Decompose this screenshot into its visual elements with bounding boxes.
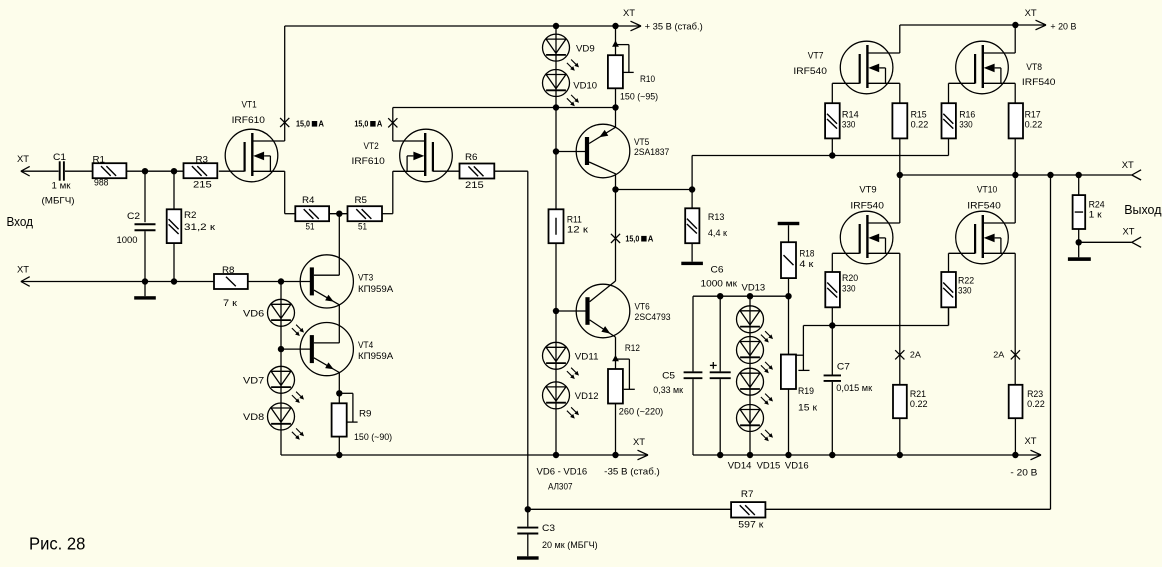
svg-text:VD16: VD16 <box>785 461 809 472</box>
svg-text:51: 51 <box>306 222 315 233</box>
svg-text:VD8: VD8 <box>243 412 264 423</box>
svg-text:XT: XT <box>633 437 645 448</box>
svg-text:C7: C7 <box>837 362 850 373</box>
svg-text:R5: R5 <box>355 195 368 206</box>
svg-text:R18: R18 <box>799 248 814 259</box>
svg-text:VD12: VD12 <box>575 391 599 402</box>
svg-text:Рис. 28: Рис. 28 <box>29 534 85 554</box>
svg-text:330: 330 <box>959 119 973 130</box>
svg-text:R4: R4 <box>302 195 315 206</box>
svg-text:0.22: 0.22 <box>1027 399 1045 410</box>
svg-text:330: 330 <box>842 283 856 294</box>
svg-text:КП959А: КП959А <box>358 284 394 295</box>
svg-text:-35 В (стаб.): -35 В (стаб.) <box>604 466 660 477</box>
svg-text:R19: R19 <box>798 386 814 397</box>
svg-text:IRF610: IRF610 <box>232 115 265 126</box>
svg-text:0,015 мк: 0,015 мк <box>836 383 873 394</box>
svg-text:А: А <box>318 119 324 129</box>
svg-text:330: 330 <box>958 286 972 297</box>
svg-text:VT9: VT9 <box>859 185 876 196</box>
svg-text:2SA1837: 2SA1837 <box>634 147 669 158</box>
svg-text:R12: R12 <box>625 343 640 354</box>
svg-text:XT: XT <box>1025 436 1037 447</box>
svg-text:IRF610: IRF610 <box>352 156 385 167</box>
svg-text:C1: C1 <box>53 152 66 163</box>
svg-text:+ 35 В (стаб.): + 35 В (стаб.) <box>645 22 703 33</box>
svg-text:R2: R2 <box>184 210 197 221</box>
svg-text:R10: R10 <box>640 74 655 85</box>
svg-text:51: 51 <box>358 222 367 233</box>
svg-text:1 мк: 1 мк <box>52 181 72 192</box>
svg-text:АЛ307: АЛ307 <box>548 482 573 493</box>
svg-text:VT2: VT2 <box>364 141 379 152</box>
svg-text:IRF540: IRF540 <box>967 200 1001 211</box>
svg-text:0.22: 0.22 <box>1025 119 1043 130</box>
svg-text:150 (~90): 150 (~90) <box>354 432 392 443</box>
svg-text:VD10: VD10 <box>573 81 597 92</box>
svg-text:R7: R7 <box>741 489 754 500</box>
svg-text:215: 215 <box>465 180 484 191</box>
svg-text:VT1: VT1 <box>242 99 257 110</box>
svg-text:7 к: 7 к <box>223 298 238 309</box>
svg-text:C3: C3 <box>542 523 555 534</box>
svg-text:VD13: VD13 <box>742 283 766 294</box>
svg-text:20 мк (МБГЧ): 20 мк (МБГЧ) <box>542 540 598 551</box>
svg-text:XT: XT <box>17 154 29 165</box>
svg-text:XT: XT <box>1123 227 1135 238</box>
svg-text:А: А <box>377 119 383 129</box>
svg-text:VT10: VT10 <box>977 185 997 196</box>
svg-text:597 к: 597 к <box>738 520 764 531</box>
svg-text:IRF540: IRF540 <box>1022 77 1056 88</box>
svg-text:XT: XT <box>1122 160 1134 171</box>
svg-text:VT4: VT4 <box>358 340 373 351</box>
svg-text:А: А <box>648 234 654 244</box>
svg-text:VD9: VD9 <box>576 44 595 55</box>
svg-text:1000: 1000 <box>117 235 138 246</box>
svg-text:XT: XT <box>17 265 29 276</box>
svg-text:- 20 В: - 20 В <box>1010 467 1037 478</box>
svg-text:VD15: VD15 <box>757 461 781 472</box>
svg-text:VT7: VT7 <box>808 50 824 61</box>
svg-text:988: 988 <box>94 178 109 189</box>
svg-text:2A: 2A <box>993 351 1005 360</box>
svg-text:R1: R1 <box>93 155 106 166</box>
svg-text:R6: R6 <box>465 152 478 163</box>
svg-text:XT: XT <box>623 8 635 19</box>
svg-text:VD6: VD6 <box>243 308 264 319</box>
svg-text:VD14: VD14 <box>728 461 752 472</box>
svg-text:0.22: 0.22 <box>911 119 929 130</box>
svg-text:15,0: 15,0 <box>354 119 368 129</box>
svg-text:IRF540: IRF540 <box>793 66 827 77</box>
svg-text:15,0: 15,0 <box>625 234 639 244</box>
svg-text:2A: 2A <box>910 351 922 360</box>
svg-text:КП959А: КП959А <box>358 351 394 362</box>
svg-text:R13: R13 <box>708 212 725 223</box>
svg-text:31,2 к: 31,2 к <box>184 222 216 233</box>
svg-text:15,0: 15,0 <box>296 119 310 129</box>
svg-text:(МБГЧ): (МБГЧ) <box>42 196 75 207</box>
svg-text:C6: C6 <box>711 265 724 276</box>
svg-text:0.22: 0.22 <box>910 399 928 410</box>
svg-text:215: 215 <box>193 179 212 190</box>
svg-text:VT8: VT8 <box>1026 62 1042 73</box>
svg-text:VD11: VD11 <box>575 351 599 362</box>
svg-text:260 (~220): 260 (~220) <box>619 406 663 417</box>
svg-text:C5: C5 <box>662 370 675 381</box>
svg-text:1000 мк: 1000 мк <box>701 279 738 290</box>
svg-text:R3: R3 <box>196 155 209 166</box>
svg-text:Выход: Выход <box>1124 202 1162 217</box>
svg-text:+ 20 В: + 20 В <box>1050 22 1076 33</box>
svg-text:4 к: 4 к <box>799 259 814 270</box>
svg-text:1 к: 1 к <box>1089 210 1103 221</box>
svg-text:4,4 к: 4,4 к <box>708 228 728 239</box>
svg-text:C2: C2 <box>127 211 140 222</box>
svg-text:150 (~95): 150 (~95) <box>620 91 658 102</box>
svg-text:R9: R9 <box>359 409 372 420</box>
svg-text:XT: XT <box>1025 8 1037 19</box>
svg-text:2SC4793: 2SC4793 <box>635 312 671 323</box>
svg-text:VD6 - VD16: VD6 - VD16 <box>537 466 588 477</box>
svg-text:12 к: 12 к <box>567 225 589 236</box>
svg-text:Вход: Вход <box>7 214 34 229</box>
svg-text:VT3: VT3 <box>358 273 373 284</box>
svg-text:R8: R8 <box>222 265 235 276</box>
svg-text:0,33 мк: 0,33 мк <box>653 385 683 396</box>
svg-text:15 к: 15 к <box>798 403 818 414</box>
svg-text:VD7: VD7 <box>243 375 264 386</box>
svg-text:330: 330 <box>842 119 856 130</box>
svg-text:IRF540: IRF540 <box>850 200 884 211</box>
